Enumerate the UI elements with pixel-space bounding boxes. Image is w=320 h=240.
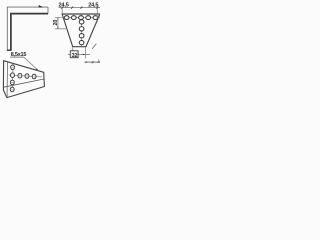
clipped neighbour dimension line bottom right: [84, 61, 100, 63]
plan view: vertical centre line: [11, 64, 14, 92]
plan view: column of holes: [10, 65, 14, 92]
front view: column hole centre ticks: [79, 22, 84, 43]
svg-text:24,5: 24,5: [88, 3, 98, 9]
plan view: row of holes: [18, 73, 36, 78]
20 dimension: vertical dim line: [57, 18, 59, 29]
front view: horizontal centre line through hole row (also 20-dim top extension): [55, 17, 100, 19]
front view: column of 4 holes: [79, 20, 84, 45]
svg-text:24,5: 24,5: [59, 3, 69, 9]
leader arrowhead: [36, 68, 38, 70]
32 dimension line: [68, 54, 71, 56]
stray slash mark right of front view bottom: [92, 44, 96, 49]
side view: right end cap: [47, 7, 49, 14]
svg-text:20: 20: [53, 20, 59, 26]
plan view: bend line (flange edge): [4, 79, 44, 87]
label leader line: [24, 57, 38, 70]
plan view: inner web line: [6, 62, 8, 97]
plan view: hole centre ticks: [10, 67, 34, 89]
top dimension tick marks: [61, 7, 98, 9]
32 dimension: extensions: [71, 47, 73, 51]
side view: thick inner L (flange bottom + web right): [11, 14, 48, 51]
side view: bottom cap of web: [7, 49, 12, 51]
top dimension extension lines: [61, 8, 63, 14]
svg-text:32: 32: [72, 53, 78, 59]
front view: row of 5 holes: [64, 16, 98, 20]
32 arrowhead: [83, 54, 86, 56]
32 box: [70, 51, 78, 58]
front view: vertical centre line through hole column: [81, 14, 83, 46]
20 dimension bottom extension: [55, 28, 68, 30]
20 dimension arrowheads: [57, 17, 58, 19]
plan view: outline: [3, 61, 44, 98]
front view: trapezoid outline: [62, 14, 100, 47]
side view: black wedge mark on top edge: [39, 5, 44, 7]
top dimension line 24,5 / 24,5: [59, 7, 100, 9]
front view: row hole centre ticks: [67, 15, 96, 20]
side view: outer thin L outline: [7, 7, 48, 50]
label underline: [10, 56, 24, 58]
plan view: horizontal centre line: [9, 75, 42, 77]
